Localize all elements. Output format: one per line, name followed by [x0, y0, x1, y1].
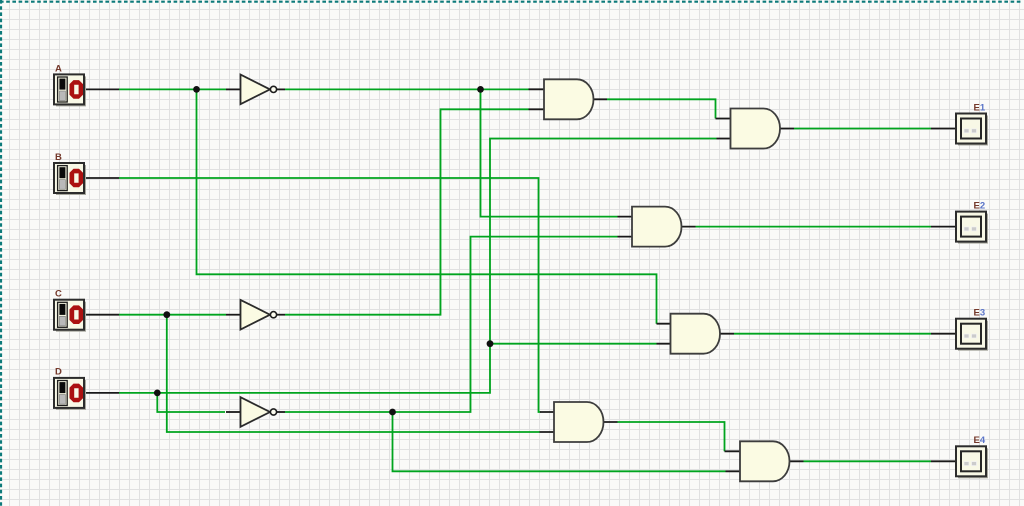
wire net /D: NOT3 output up to AND3 bottom input — [285, 237, 618, 412]
junction on net /A — [477, 86, 484, 93]
junction on net C — [163, 311, 170, 318]
wire net /A: NOT1 output to AND1 top input — [285, 88, 529, 90]
svg-text:E3: E3 — [974, 308, 986, 319]
svg-text:E1: E1 — [974, 103, 986, 114]
AND gate U4 — [671, 314, 721, 354]
pin input B — [85, 177, 120, 179]
output indicator E3 — [956, 308, 988, 351]
wire AND3 output to E2 — [696, 226, 932, 228]
wire net C: input C to NOT2 input — [119, 314, 226, 316]
output indicator E2 — [956, 201, 988, 244]
wire net D: branch to AND4 bottom input — [490, 343, 657, 345]
input B (LOGICSTATE) — [54, 152, 86, 195]
pins E1-E4 — [931, 129, 956, 462]
pins AND4 inputs 1,2 and output — [657, 324, 735, 344]
svg-text:E4: E4 — [974, 435, 986, 446]
AND gate U6 — [740, 441, 790, 481]
wire net D: branch to NOT3 input — [157, 393, 225, 412]
pin NOT2 output — [277, 314, 285, 316]
sheet border left (dashed teal) — [0, 0, 2, 506]
pin NOT1 output — [277, 88, 285, 90]
junction on net D — [154, 390, 161, 397]
input A (LOGICSTATE) — [54, 64, 86, 107]
pin NOT1 input — [226, 88, 241, 90]
pin NOT3 output — [277, 411, 285, 413]
AND gate U1 — [544, 79, 594, 119]
wire net D: input D up to AND2 bottom input — [119, 139, 717, 393]
AND gate U3 — [632, 207, 682, 247]
wire net B: input B to AND5 top input — [119, 178, 541, 412]
wire net A: branch down and across to AND4 top input — [197, 89, 657, 323]
wire net C: branch down to AND5 bottom input — [167, 315, 540, 432]
junction on net /D — [389, 409, 396, 416]
AND gate U5 — [554, 402, 604, 442]
wire net A: input A to NOT1 input — [119, 88, 226, 90]
pins AND2 inputs 1,2 and output — [716, 119, 795, 139]
pins AND3 inputs 1,2 and output — [618, 217, 696, 237]
pin input A — [85, 88, 120, 90]
input C (LOGICSTATE) — [54, 289, 86, 332]
junction on net D — [487, 340, 494, 347]
inverter U8 — [241, 300, 277, 330]
wire net /D: branch down to AND6 bottom input — [393, 412, 726, 471]
inverter U7 — [241, 75, 277, 105]
output indicator E1 — [956, 103, 988, 146]
pin NOT2 input — [226, 314, 241, 316]
pin NOT3 input — [226, 411, 241, 413]
svg-text:E2: E2 — [974, 201, 986, 212]
junction on net A — [193, 86, 200, 93]
input D (LOGICSTATE) — [54, 367, 86, 410]
wire AND6 output to E4 — [804, 460, 932, 462]
wire net /C: NOT2 output up to AND1 bottom input — [285, 109, 529, 314]
svg-text:C: C — [55, 289, 62, 300]
sheet border top (dashed teal) — [0, 1, 1021, 3]
output indicator E4 — [956, 435, 988, 479]
wire AND4 output to E3 — [734, 333, 931, 335]
pin input C — [85, 314, 120, 316]
svg-text:A: A — [55, 64, 62, 75]
svg-text:D: D — [55, 367, 62, 378]
pins AND5 inputs 1,2 and output — [540, 412, 618, 432]
pins AND1 inputs 1,2 and output — [529, 89, 608, 109]
wire net /A: branch down to AND3 top input — [481, 89, 618, 216]
wire AND5 output to AND6 top input — [618, 422, 725, 451]
svg-text:B: B — [55, 152, 62, 163]
pin input D — [85, 392, 120, 394]
inverter U9 — [241, 397, 277, 427]
AND gate U2 — [731, 109, 781, 149]
wire AND1 output to AND2 top input — [607, 99, 716, 118]
wire AND2 output to E1 — [794, 128, 931, 130]
pins AND6 inputs 1,2 and output — [725, 451, 804, 471]
